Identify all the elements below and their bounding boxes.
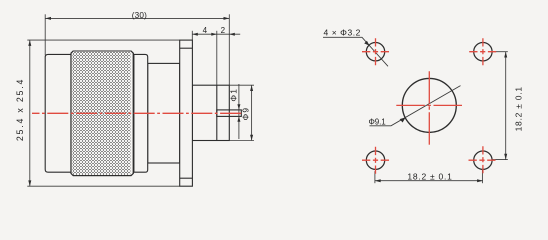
svg-text:Φ9: Φ9 [240,107,250,121]
svg-text:(30): (30) [132,11,147,20]
svg-text:18.2 ± 0.1: 18.2 ± 0.1 [407,171,452,181]
svg-text:4: 4 [203,26,208,35]
svg-text:25.4 x 25.4: 25.4 x 25.4 [15,78,25,141]
svg-text:Φ9.1: Φ9.1 [369,118,387,127]
svg-text:4 × Φ3.2: 4 × Φ3.2 [324,27,361,37]
svg-text:2: 2 [221,26,226,35]
svg-text:18.2 ± 0.1: 18.2 ± 0.1 [514,86,524,131]
svg-text:Φ1: Φ1 [229,88,239,102]
